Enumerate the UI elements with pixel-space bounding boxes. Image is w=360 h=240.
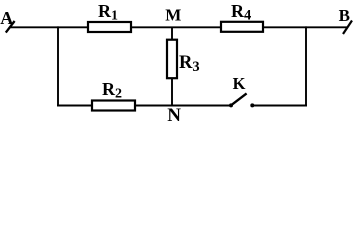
wire M to R3 <box>171 27 173 41</box>
svg-text:M: M <box>165 5 181 24</box>
wire R4 to B <box>263 26 348 28</box>
resistor R3 <box>167 40 177 78</box>
resistor R2 <box>92 101 135 111</box>
wire A to R1 <box>10 26 88 28</box>
svg-text:B: B <box>339 6 350 25</box>
svg-text:N: N <box>167 105 181 123</box>
switch K contact right <box>250 103 254 107</box>
terminal A slash <box>6 21 15 33</box>
wire bottom-left to R2 <box>57 105 92 107</box>
wire left vertical branch <box>57 26 59 106</box>
wire R1 to R4 <box>131 26 221 28</box>
resistor R4 <box>221 22 263 32</box>
terminal B slash <box>343 21 352 35</box>
wire right vertical branch <box>305 26 307 106</box>
resistor R1 <box>88 22 131 32</box>
svg-text:K: K <box>233 74 246 93</box>
wire R3 to N <box>171 78 173 106</box>
wire switch to right branch <box>253 105 307 107</box>
switch K lever <box>232 93 247 104</box>
wire R2 to switch <box>135 105 230 107</box>
switch K contact left <box>229 103 233 107</box>
